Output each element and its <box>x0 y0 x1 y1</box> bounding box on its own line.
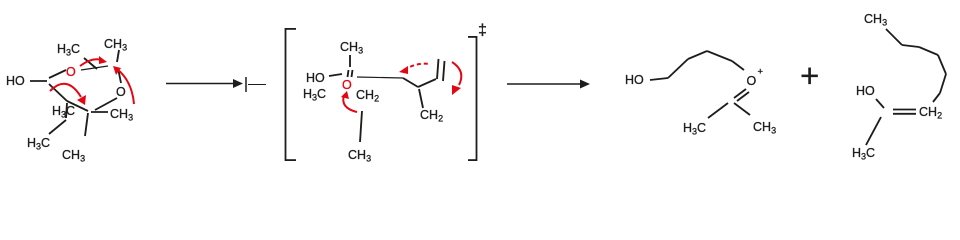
arrowhead of reaction arrow 1 <box>233 79 243 88</box>
wire faint shaft continuation <box>248 84 266 86</box>
wire C4-C7 bond <box>66 103 67 118</box>
svg-text:+: + <box>758 67 764 78</box>
wire C-CH3 bond (right) <box>734 103 750 115</box>
curved arrow g (red C-shaped, points up at C=O) <box>343 95 357 112</box>
wire bracket vertical <box>285 28 287 161</box>
wire HO-C1 bond <box>30 80 47 82</box>
wire chain bond into O <box>933 93 940 102</box>
wire O1-C2 bond <box>81 66 108 70</box>
wire C5-CH3(T5) bond <box>91 111 108 113</box>
wire O2-C5 bond <box>95 98 117 110</box>
wire tick after head <box>245 77 247 92</box>
svg-text:O: O <box>66 65 76 79</box>
svg-text:O: O <box>342 78 352 92</box>
wire partial bond C1...C11 (breaking) <box>357 77 403 78</box>
wire C-CH3 bond down-left <box>866 117 881 145</box>
arrowhead of reaction arrow 2 <box>580 80 590 89</box>
wire chain bond down <box>707 51 732 61</box>
wire C1-O1 bond <box>49 70 66 78</box>
curved arrow h (red dashed, points left at breaking bond) <box>404 64 430 70</box>
wire chain bond down <box>938 55 946 74</box>
wire CH3(T8)-C1 bond <box>349 55 351 67</box>
curved arrow i (red hook, points down) <box>452 62 461 85</box>
wire arrow shaft <box>166 83 241 85</box>
wire chain bond up <box>668 59 688 78</box>
wire bracket vertical <box>476 36 478 161</box>
wire C5-CH3(T7) bond <box>85 113 88 136</box>
wire C1-C4 bond <box>49 84 67 101</box>
wire C9-C10 long bond <box>360 111 362 142</box>
wire bracket bottom serif <box>285 159 296 161</box>
wire C11 up-right bond <box>418 79 436 87</box>
wire C4-C5 bond <box>67 101 88 111</box>
wire chain bond into O <box>732 61 744 70</box>
wire CH3(T1)-C2 bond <box>84 58 97 69</box>
wire bracket bottom serif <box>468 159 477 161</box>
wire bracket top serif <box>468 36 477 38</box>
wire chain bond <box>919 47 938 55</box>
wire arrow shaft <box>507 83 588 85</box>
wire C7-CH3(T6) bond <box>49 120 66 134</box>
wire HO-C bond <box>876 99 884 108</box>
svg-text:‡: ‡ <box>478 22 487 39</box>
wire HO-chain bond <box>650 78 668 80</box>
wire O=C double bond <box>734 89 746 98</box>
wire C11 down bond <box>419 89 423 108</box>
wire chain bond down-left <box>940 74 946 93</box>
wire C1=O partial double bond <box>348 70 349 77</box>
wire C-CH3 bond (left) <box>708 103 728 118</box>
svg-text:O: O <box>116 85 126 99</box>
svg-text:HO: HO <box>856 84 875 98</box>
svg-text:HO: HO <box>306 71 325 85</box>
curved arrow e (red, long arc up to C2) <box>117 69 134 104</box>
wire C2-O2 bond <box>118 68 121 83</box>
svg-text:HO: HO <box>625 73 644 87</box>
wire forming C=C partial lines <box>437 59 439 79</box>
wire chain bond to apex <box>688 51 707 59</box>
wire CH3(T2)-C2 bond <box>117 50 119 62</box>
wire chain bond <box>902 45 919 47</box>
wire CH3-chain bond <box>886 29 902 45</box>
svg-text:+: + <box>800 57 819 94</box>
wire bracket top serif <box>285 28 296 30</box>
wire HO-C1 bond <box>329 74 342 76</box>
wire C=CH2 double bond <box>893 109 916 111</box>
curved arrow c (red, from O1 to C2) <box>80 59 102 66</box>
svg-text:HO: HO <box>6 74 25 88</box>
wire bond to C11 vertex <box>403 78 418 87</box>
svg-text:O: O <box>747 74 757 88</box>
curved arrow d (red, arcs down to lower O) <box>50 84 81 97</box>
